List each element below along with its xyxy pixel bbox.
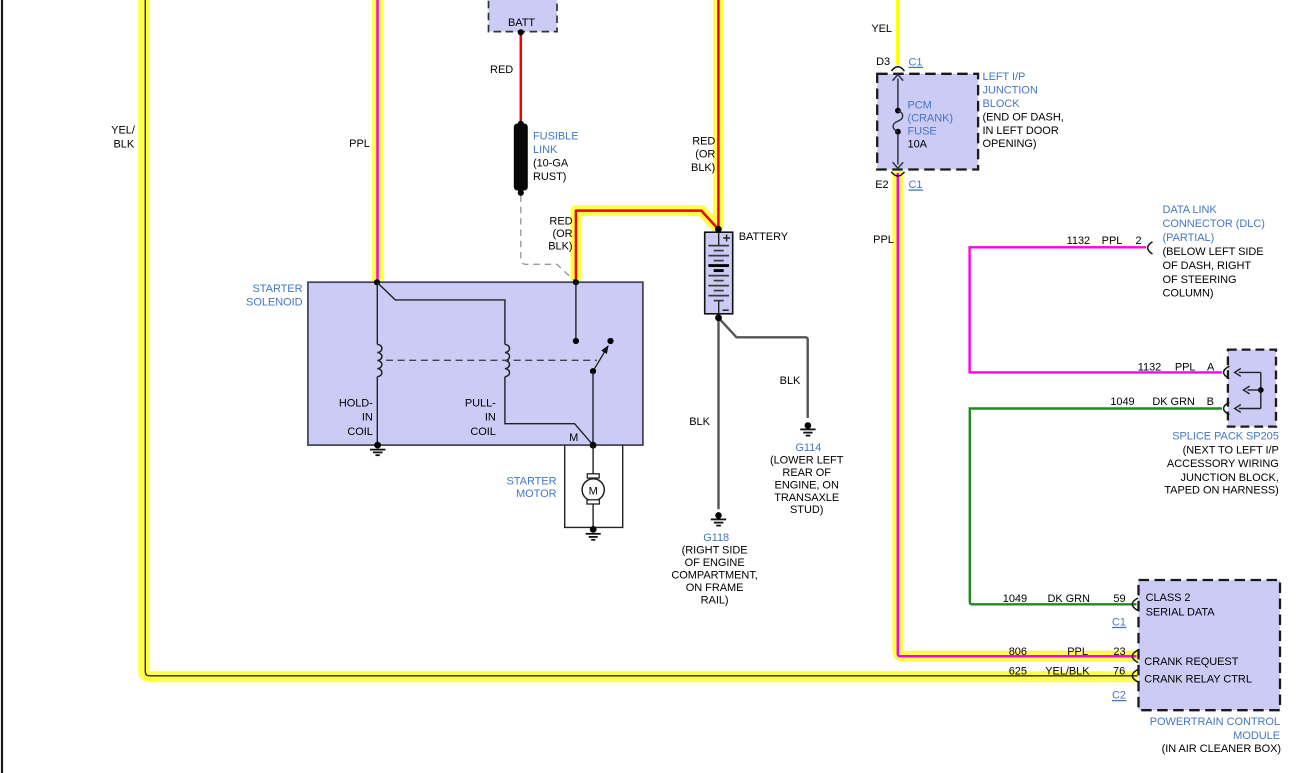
wire PPL from junction block E2 to PCM pin 23 (magenta) [898, 173, 1137, 656]
node M terminal [590, 442, 597, 449]
node above fusible link [518, 121, 524, 127]
svg-text:SERIAL DATA: SERIAL DATA [1146, 607, 1216, 619]
svg-text:IN: IN [362, 412, 373, 424]
svg-text:C1: C1 [1112, 616, 1126, 628]
splice pack SP205 box [1228, 350, 1276, 427]
switch pivot node [590, 368, 596, 374]
motor bottom wire [592, 504, 594, 527]
svg-text:DK GRN: DK GRN [1152, 396, 1195, 408]
wire PPL 1132 to DLC pin 2 (magenta) [970, 247, 1222, 372]
motor brush top [587, 474, 599, 478]
svg-text:(RIGHT SIDE: (RIGHT SIDE [682, 545, 748, 557]
svg-text:PULL-: PULL- [465, 398, 496, 410]
svg-text:BLK: BLK [113, 138, 134, 150]
wire BLK battery to G118 ground [717, 318, 719, 509]
svg-text:TAPED ON HARNESS): TAPED ON HARNESS) [1164, 485, 1278, 497]
svg-text:IN: IN [485, 412, 496, 424]
svg-text:M: M [569, 432, 578, 444]
svg-text:BATTERY: BATTERY [739, 231, 789, 243]
svg-text:MODULE: MODULE [1233, 730, 1280, 742]
motor feed wire [592, 445, 594, 474]
svg-text:FUSE: FUSE [908, 126, 937, 138]
fusible link body [514, 124, 528, 191]
svg-text:BLK): BLK) [548, 241, 572, 253]
node PPL at solenoid top [374, 279, 380, 285]
svg-text:(BELOW LEFT SIDE: (BELOW LEFT SIDE [1163, 246, 1264, 258]
svg-text:LINK: LINK [533, 144, 558, 156]
powertrain control module box [1139, 580, 1281, 710]
wire BLK battery to G114 ground [719, 318, 808, 418]
svg-text:C2: C2 [1112, 690, 1126, 702]
wire YEL top right [896, 0, 900, 65]
connector arc at PCM pin 59 [1132, 598, 1138, 611]
svg-text:1132: 1132 [1138, 361, 1161, 373]
svg-text:CRANK RELAY CTRL: CRANK RELAY CTRL [1144, 674, 1252, 686]
svg-text:(END OF DASH,: (END OF DASH, [983, 111, 1064, 123]
svg-text:(OR: (OR [552, 228, 572, 240]
svg-text:BLK: BLK [689, 416, 710, 428]
svg-text:1132: 1132 [1067, 235, 1090, 247]
svg-text:IN LEFT DOOR: IN LEFT DOOR [983, 125, 1059, 137]
hold-in coil lower wire [376, 377, 378, 446]
battery plates [708, 246, 729, 301]
svg-text:CLASS 2: CLASS 2 [1146, 592, 1191, 604]
svg-text:G114: G114 [795, 442, 821, 454]
svg-text:SOLENOID: SOLENOID [246, 297, 303, 309]
switch pivot wire to M [592, 371, 594, 445]
svg-text:YEL/: YEL/ [111, 125, 136, 137]
svg-text:PPL: PPL [1175, 361, 1196, 373]
svg-text:SPLICE PACK SP205: SPLICE PACK SP205 [1172, 431, 1279, 443]
hilite yellow over PPL left vertical wire [372, 0, 383, 282]
svg-text:FUSIBLE: FUSIBLE [533, 131, 579, 143]
inductor hold-in coil [377, 344, 382, 376]
node motor ground [590, 526, 597, 533]
svg-text:D3: D3 [876, 56, 890, 68]
pull-in coil lower wire to M node [505, 377, 593, 446]
battery minus sign [723, 309, 729, 311]
svg-text:A: A [1207, 361, 1215, 373]
dashed armature link [386, 359, 597, 361]
hilite yellow over RED (OR BLK) main vertical wire [713, 0, 724, 229]
svg-text:TRANSAXLE: TRANSAXLE [774, 492, 839, 504]
node RED at solenoid top [573, 279, 579, 285]
svg-text:23: 23 [1113, 646, 1125, 658]
connector C1 arc at D3 [891, 67, 904, 71]
svg-text:BATT: BATT [508, 17, 535, 29]
wire DK GRN 1049 splice pack B to PCM pin 59 (green) [970, 409, 1222, 605]
svg-text:C1: C1 [909, 179, 923, 191]
svg-text:LEFT I/P: LEFT I/P [983, 71, 1026, 83]
battery box [705, 232, 733, 314]
svg-text:(PARTIAL): (PARTIAL) [1163, 232, 1215, 244]
ground below hold-in coil [370, 450, 386, 456]
wire RED (OR BLK) branch: solenoid to battery [576, 211, 719, 283]
battery bottom stem [718, 301, 720, 314]
ground G118 symbol [711, 512, 726, 525]
connector arc at PCM pin 76 [1132, 669, 1138, 682]
battery top stem [718, 232, 720, 245]
connector arc at DLC pin 2 [1148, 242, 1153, 254]
svg-text:(OR: (OR [695, 149, 715, 161]
svg-text:STUD): STUD) [790, 504, 823, 516]
svg-text:DK GRN: DK GRN [1047, 593, 1090, 605]
starter solenoid box [308, 282, 643, 445]
node hold-in coil at box bottom [374, 442, 381, 449]
dashed gray wire from fusible link to solenoid junction [521, 196, 576, 283]
svg-text:(CRANK): (CRANK) [908, 113, 953, 125]
svg-text:M: M [589, 486, 598, 498]
connector C1 arc at E2 [891, 172, 904, 176]
svg-text:RED: RED [692, 135, 715, 147]
svg-text:625: 625 [1009, 666, 1027, 678]
svg-text:(10-GA: (10-GA [533, 158, 569, 170]
svg-text:COLUMN): COLUMN) [1163, 288, 1214, 300]
svg-text:1049: 1049 [1003, 593, 1027, 605]
switch fixed contact left [573, 338, 579, 344]
svg-text:G118: G118 [703, 532, 729, 544]
wire PPL left vertical (magenta) [376, 0, 379, 282]
svg-text:YEL: YEL [871, 23, 892, 35]
svg-text:OF DASH, RIGHT: OF DASH, RIGHT [1163, 260, 1252, 272]
ground below starter motor [586, 534, 601, 540]
node below fusible link [518, 190, 524, 196]
svg-text:CONNECTOR (DLC): CONNECTOR (DLC) [1163, 218, 1265, 230]
svg-text:COIL: COIL [470, 426, 495, 438]
svg-text:JUNCTION BLOCK,: JUNCTION BLOCK, [1181, 472, 1279, 484]
svg-text:76: 76 [1113, 666, 1125, 678]
battery plus sign [723, 235, 730, 242]
svg-text:POWERTRAIN CONTROL: POWERTRAIN CONTROL [1150, 716, 1280, 728]
svg-text:CRANK REQUEST: CRANK REQUEST [1144, 656, 1238, 668]
hold-in coil branch wire [376, 282, 378, 344]
svg-text:PPL: PPL [349, 138, 370, 150]
svg-text:BLK: BLK [780, 375, 801, 387]
node at BATT box output [518, 29, 524, 35]
wire RED (OR BLK) main vertical to battery [717, 0, 720, 229]
svg-text:JUNCTION: JUNCTION [983, 85, 1038, 97]
svg-text:PPL: PPL [873, 234, 894, 246]
svg-text:RUST): RUST) [533, 171, 566, 183]
BATT box (dashed, top cropped) [489, 0, 558, 32]
svg-text:C1: C1 [909, 56, 923, 68]
svg-text:RED: RED [549, 215, 572, 227]
svg-text:806: 806 [1009, 646, 1027, 658]
motor brush bottom [587, 500, 599, 504]
switch fixed contact right [607, 338, 613, 344]
left I/P junction block box [877, 74, 978, 170]
svg-text:10A: 10A [908, 139, 928, 151]
motor M circle [582, 479, 604, 501]
wire YEL/BLK thin black core line [145, 0, 1137, 676]
svg-text:BLK): BLK) [691, 162, 715, 174]
svg-text:B: B [1207, 396, 1214, 408]
hilite yellow over RED (OR BLK) branch to solenoid [576, 211, 719, 283]
node battery positive [715, 226, 722, 233]
svg-text:PPL: PPL [1102, 235, 1123, 247]
svg-text:PPL: PPL [1067, 646, 1088, 658]
svg-text:OF ENGINE: OF ENGINE [685, 557, 745, 569]
svg-text:YEL/BLK: YEL/BLK [1045, 666, 1090, 678]
svg-text:2: 2 [1135, 235, 1141, 247]
splice mid node and arrow [1258, 387, 1264, 393]
svg-text:(LOWER LEFT: (LOWER LEFT [770, 454, 844, 466]
starter motor case outline [565, 445, 623, 527]
svg-text:ACCESSORY WIRING: ACCESSORY WIRING [1167, 458, 1279, 470]
switch blade with arrowhead [593, 350, 606, 371]
svg-text:BLOCK: BLOCK [983, 98, 1021, 110]
splice pack internal bus [1260, 372, 1262, 408]
wire RED from BATT box to fusible link [520, 32, 523, 123]
svg-text:ON FRAME: ON FRAME [686, 582, 744, 594]
splice arrow pin B [1239, 408, 1261, 410]
hilite yellow path over YEL/BLK wire (left vertical + bottom run to PCM) [144, 0, 1138, 677]
svg-text:COMPARTMENT,: COMPARTMENT, [671, 569, 757, 581]
svg-text:COIL: COIL [347, 426, 372, 438]
page border line [1, 0, 3, 773]
svg-text:1049: 1049 [1110, 396, 1134, 408]
svg-text:RAIL): RAIL) [701, 594, 729, 606]
svg-text:HOLD-: HOLD- [339, 398, 373, 410]
splice arrow pin A [1239, 371, 1261, 373]
pull-in coil branch wire [377, 282, 505, 344]
svg-text:OF STEERING: OF STEERING [1163, 274, 1237, 286]
svg-text:STARTER: STARTER [253, 283, 303, 295]
hilite yellow over PPL wire from junction block E2 down to PCM pin 23 [898, 172, 1138, 657]
connector arc at splice pin A [1224, 366, 1230, 378]
svg-text:RED: RED [490, 64, 513, 76]
ground G114 symbol [800, 422, 815, 435]
switch feed wire from RED node [575, 282, 577, 338]
svg-text:PCM: PCM [908, 100, 932, 112]
svg-text:E2: E2 [875, 179, 888, 191]
fuse element arrows in junction block [897, 79, 899, 111]
svg-text:REAR OF: REAR OF [782, 467, 831, 479]
svg-text:(NEXT TO LEFT I/P: (NEXT TO LEFT I/P [1183, 445, 1279, 457]
svg-text:59: 59 [1113, 593, 1125, 605]
svg-text:DATA LINK: DATA LINK [1163, 204, 1218, 216]
svg-text:ENGINE, ON: ENGINE, ON [775, 479, 839, 491]
svg-text:STARTER: STARTER [507, 475, 557, 487]
node battery negative [715, 314, 722, 321]
svg-text:(IN AIR CLEANER BOX): (IN AIR CLEANER BOX) [1162, 743, 1281, 755]
fuse PCM (CRANK) 10A element [895, 108, 901, 114]
connector arc at splice pin B [1224, 402, 1230, 414]
svg-text:OPENING): OPENING) [983, 138, 1037, 150]
inductor pull-in coil [505, 344, 510, 376]
svg-text:MOTOR: MOTOR [516, 488, 557, 500]
connector arc at PCM pin 23 [1132, 650, 1138, 663]
